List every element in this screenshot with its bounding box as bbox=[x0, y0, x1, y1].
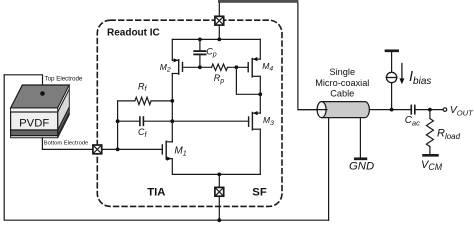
terminal VOUT bbox=[443, 108, 447, 112]
node TIA out bbox=[170, 119, 174, 123]
svg-text:Cable: Cable bbox=[330, 88, 354, 98]
node Rf right bbox=[170, 99, 174, 103]
wire pad2 to return bbox=[218, 196, 220, 220]
node ground bus bbox=[217, 173, 221, 177]
node M4 drain bbox=[258, 92, 262, 96]
supply bar VCM bbox=[424, 154, 438, 157]
sensor PVDF top strip bbox=[11, 108, 58, 112]
wire top bus bar bbox=[218, 0, 298, 3]
node Rload tap bbox=[428, 108, 432, 112]
wire M3 drain to ground bus bbox=[259, 129, 261, 174]
wire pad1 to bar bbox=[218, 3, 220, 16]
pad X2 bottom bbox=[215, 187, 224, 196]
wire supply rail bbox=[172, 38, 260, 40]
wire cable out bbox=[369, 109, 411, 111]
node Cf left bbox=[116, 119, 120, 123]
capacitor Cac bbox=[411, 105, 443, 113]
wire feedback left vertical bbox=[117, 101, 119, 149]
wire Rp to M4 gate bbox=[228, 66, 249, 68]
wire into cable bbox=[298, 109, 327, 111]
svg-text:PVDF: PVDF bbox=[19, 117, 49, 129]
pad X1 top bbox=[215, 16, 224, 25]
node gate-Cp bbox=[198, 65, 202, 69]
resistor Rload bbox=[426, 110, 433, 154]
wire M2 source drop bbox=[171, 39, 173, 60]
sensor PVDF front face bbox=[11, 112, 58, 130]
svg-text:Top Electrode: Top Electrode bbox=[45, 75, 83, 82]
wire M2 drain vertical bbox=[171, 74, 173, 143]
wire bottom electrode lead bbox=[42, 138, 93, 150]
sensor bottom bevel side bbox=[58, 113, 70, 138]
node top electrode dot bbox=[40, 91, 45, 96]
node M4 gate tie bbox=[235, 65, 239, 69]
node return junction bbox=[217, 218, 221, 222]
wire M2 gate line bbox=[183, 66, 212, 68]
wire bus to pad2 bbox=[218, 174, 220, 187]
wire cable shield to GND bbox=[359, 118, 361, 158]
sensor bottom bevel bbox=[11, 136, 58, 138]
transistor M4 bbox=[248, 57, 260, 77]
transistor M2 bbox=[172, 58, 182, 74]
wire left return (outer loop) bbox=[4, 75, 328, 220]
svg-text:TIA: TIA bbox=[147, 186, 165, 198]
svg-text:Readout IC: Readout IC bbox=[107, 28, 160, 39]
transistor M3 bbox=[249, 111, 261, 130]
capacitor Cf bbox=[118, 117, 173, 125]
wire M4 drain bbox=[259, 76, 261, 94]
svg-text:Micro-coaxial: Micro-coaxial bbox=[315, 78, 369, 88]
wire bar to cable bbox=[298, 3, 322, 110]
wire M4 gate-drain tie bbox=[236, 67, 260, 94]
resistor Rf bbox=[118, 97, 173, 104]
wire top electrode lead bbox=[4, 75, 42, 94]
sensor PVDF side mid bbox=[58, 89, 70, 130]
capacitor Cp bbox=[194, 39, 205, 67]
transistor M1 bbox=[162, 141, 172, 161]
wire TIA out to M3 gate bbox=[172, 120, 248, 122]
ground GND bbox=[355, 157, 366, 160]
arrow Ibias bbox=[399, 64, 404, 85]
node rail-pad bbox=[217, 38, 221, 42]
wire Ibias drop bbox=[391, 83, 393, 110]
sensor PVDF top face bbox=[11, 85, 70, 108]
sensor PVDF side strip bbox=[58, 85, 70, 112]
supply bar Ibias bbox=[386, 49, 398, 52]
wire M1 source to ground bus bbox=[172, 159, 260, 175]
cable left end bbox=[317, 102, 326, 118]
sensor bottom electrode side bbox=[58, 107, 70, 136]
cable body bbox=[322, 102, 370, 118]
svg-text:GND: GND bbox=[349, 161, 374, 173]
node input-feedback bbox=[116, 148, 120, 152]
wire pad1 to rail bbox=[218, 25, 220, 39]
wire input to M1 gate bbox=[102, 148, 163, 150]
resistor Rp bbox=[212, 64, 228, 70]
wire M4 drain to M3 bbox=[259, 94, 261, 113]
sensor bottom electrode plate bbox=[11, 130, 58, 136]
current source Ibias bbox=[386, 52, 396, 83]
svg-text:Single: Single bbox=[330, 67, 356, 77]
node Ibias tap bbox=[390, 108, 394, 112]
node rail-Cp bbox=[198, 38, 202, 42]
svg-text:SF: SF bbox=[252, 186, 267, 198]
dashed box Readout IC bbox=[97, 20, 282, 206]
wire M4 source drop bbox=[259, 39, 261, 59]
wire cable shield to return bbox=[328, 118, 330, 221]
svg-text:Bottom Electrode: Bottom Electrode bbox=[44, 141, 88, 147]
pad X3 input bbox=[93, 145, 102, 154]
